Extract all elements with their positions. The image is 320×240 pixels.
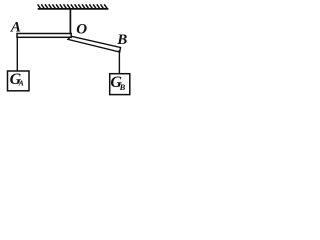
- beam right arm (O to B), tucked under left arm: [68, 36, 121, 52]
- svg-text:B: B: [119, 82, 126, 92]
- ceiling line: [38, 8, 109, 10]
- left string: [16, 38, 18, 72]
- support rod: [69, 9, 71, 35]
- svg-text:B: B: [116, 32, 127, 48]
- weight box G_A: [8, 71, 30, 91]
- ceiling hatching: [38, 4, 108, 9]
- beam left arm (A to O): [17, 34, 71, 38]
- svg-text:O: O: [76, 21, 87, 37]
- right string: [118, 50, 120, 74]
- weight box G_B: [110, 74, 130, 95]
- svg-text:A: A: [18, 79, 24, 88]
- svg-text:A: A: [10, 19, 21, 35]
